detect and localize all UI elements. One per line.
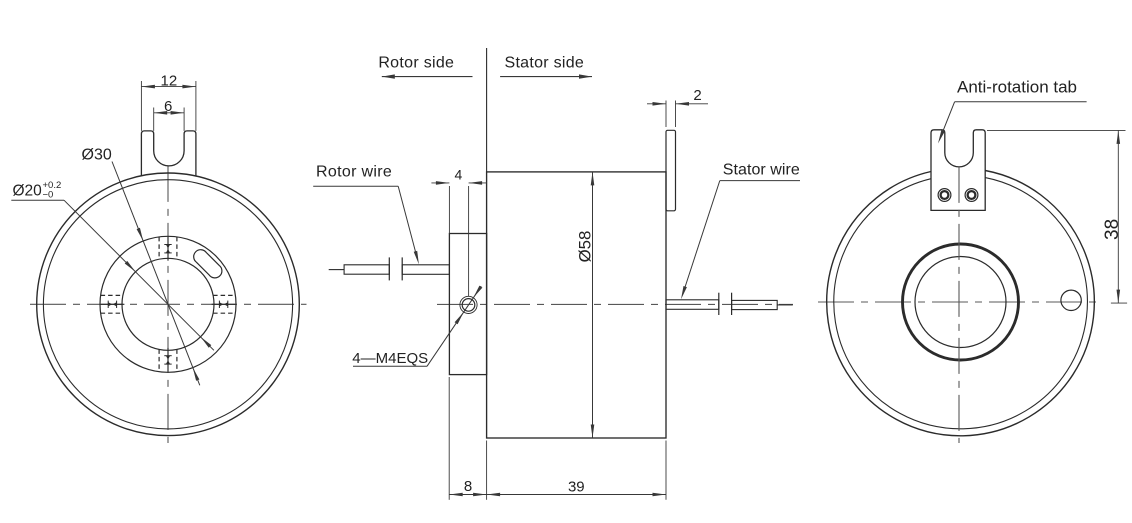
left view anti-rotation tab outline xyxy=(141,131,196,176)
tapped hole M4 right (dashed thread lines) xyxy=(213,294,235,296)
svg-text:Rotor side: Rotor side xyxy=(378,55,454,72)
tapped hole M4 top axis xyxy=(167,237,169,261)
tapped hole M4 bottom section mark xyxy=(164,355,171,357)
tapped hole M4 left (dashed thread lines) xyxy=(101,294,123,296)
dimension 4 line and arrows xyxy=(431,182,449,184)
tab rivet left xyxy=(938,189,951,202)
svg-text:−0: −0 xyxy=(43,190,54,201)
tapped hole M4 right axis xyxy=(212,303,236,305)
svg-text:6: 6 xyxy=(164,98,172,115)
tapped hole M4 right section mark xyxy=(218,301,220,308)
Ø58 dimension line xyxy=(592,172,594,438)
left view rim circle xyxy=(43,180,292,429)
rotor wire leader xyxy=(313,185,398,187)
dimension 8 line and arrows xyxy=(449,494,486,496)
tapped hole M4 left section mark xyxy=(107,301,109,308)
dimension 6 extension lines xyxy=(153,108,155,131)
dimension 12 line and arrows xyxy=(141,86,196,88)
rotor wire body xyxy=(402,265,449,275)
bottom dimension extension lines xyxy=(448,377,450,500)
Ø30 dimension line xyxy=(112,162,200,386)
left view bolt circle Ø30 xyxy=(100,236,236,372)
Ø20 arrowheads xyxy=(125,261,136,272)
rotor flange rectangle xyxy=(449,234,486,375)
rotor/stator boundary line xyxy=(486,48,488,172)
tapped hole M4 left axis xyxy=(101,303,125,305)
svg-text:12: 12 xyxy=(161,73,178,90)
right view bore outer circle (thick) xyxy=(903,244,1019,360)
tapped hole M4 bottom axis xyxy=(167,348,169,372)
Ø20 dimension line xyxy=(64,200,214,350)
rotor cable tail xyxy=(329,269,344,271)
dimension 38 extension lines xyxy=(987,129,1126,131)
tab rivet right xyxy=(965,189,978,202)
stator wire end tick xyxy=(718,293,720,315)
stator cable xyxy=(732,300,778,309)
tapped hole M4 top section mark xyxy=(164,244,171,246)
stator wire body xyxy=(666,300,719,310)
svg-text:Rotor wire: Rotor wire xyxy=(316,164,392,181)
rotor side direction arrow xyxy=(382,76,473,78)
right view bore inner circle xyxy=(915,257,1006,348)
svg-text:39: 39 xyxy=(568,478,585,495)
svg-text:38: 38 xyxy=(1102,219,1123,240)
Ø20 label underline xyxy=(11,199,64,201)
dimension 2 line and arrows xyxy=(647,103,666,105)
right view pin hole xyxy=(1061,290,1081,310)
svg-text:Stator wire: Stator wire xyxy=(723,162,800,179)
M4 screw hole circles xyxy=(460,296,477,313)
dimension 38 line and arrows xyxy=(1117,130,1119,303)
svg-text:Ø30: Ø30 xyxy=(82,146,112,163)
obround slot in left view flange xyxy=(194,250,222,278)
right view rim circle (broken at tab) xyxy=(834,178,1088,429)
svg-text:8: 8 xyxy=(464,478,472,495)
left view bore circle Ø20 xyxy=(122,258,214,350)
left view horizontal centerline xyxy=(30,303,307,305)
left view vertical centerline xyxy=(167,166,169,443)
dimension 39 line and arrows xyxy=(487,494,666,496)
svg-text:Stator side: Stator side xyxy=(505,55,585,72)
right view outer circle (broken at tab) xyxy=(827,171,1095,436)
dimension 4 extension lines xyxy=(448,186,450,234)
svg-text:2: 2 xyxy=(693,87,701,104)
Ø30 arrowheads xyxy=(137,228,144,241)
tapped hole M4 bottom (dashed thread lines) xyxy=(158,349,160,371)
svg-text:Anti-rotation tab: Anti-rotation tab xyxy=(957,77,1077,96)
svg-text:Ø20: Ø20 xyxy=(13,183,43,200)
dimension 2 extension lines xyxy=(665,101,667,128)
right view horizontal centerline xyxy=(818,301,1098,303)
rotor cable xyxy=(344,265,389,274)
middle view centerline xyxy=(437,303,793,305)
rotor wire connector tick xyxy=(388,257,390,280)
stator wire connector tick xyxy=(731,293,733,315)
anti-rotation tab leader xyxy=(955,101,1087,103)
stator wire leader xyxy=(720,180,800,182)
right view vertical centerline xyxy=(958,167,960,443)
dimension 6 line and arrows xyxy=(154,112,184,114)
4-M4EQS leader xyxy=(353,365,427,367)
stator cable tail xyxy=(777,304,793,306)
svg-text:4—M4EQS: 4—M4EQS xyxy=(352,350,428,367)
left view outer circle xyxy=(37,173,300,436)
dimension 12 extension lines xyxy=(140,81,142,131)
stator side direction arrow xyxy=(500,76,592,78)
tapped hole M4 top (dashed thread lines) xyxy=(158,237,160,259)
svg-text:Ø58: Ø58 xyxy=(576,231,595,263)
anti-rotation tab plate (side view) xyxy=(666,130,676,211)
stator body rectangle xyxy=(487,172,666,438)
right view anti-rotation tab xyxy=(931,130,985,211)
rotor wire end tick xyxy=(401,257,403,280)
svg-text:4: 4 xyxy=(455,166,463,182)
